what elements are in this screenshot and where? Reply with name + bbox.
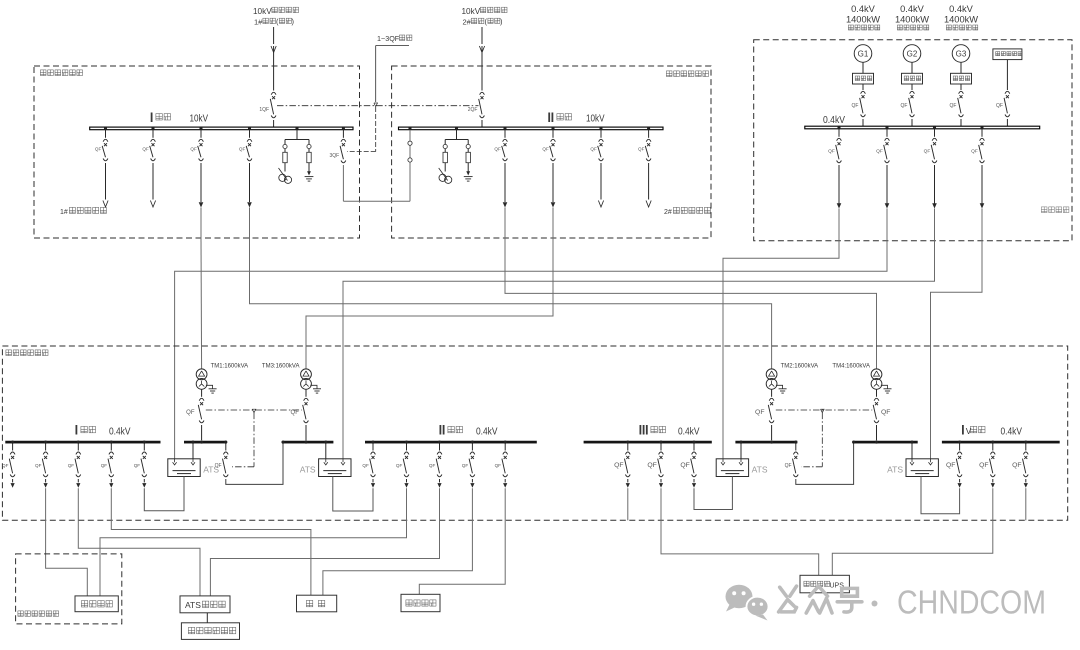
svg-text:1#: 1# <box>254 18 263 27</box>
svg-text:QF: QF <box>971 149 978 155</box>
svg-text:2#: 2# <box>664 209 672 216</box>
svg-text:QF: QF <box>239 147 246 152</box>
svg-text:QF: QF <box>291 410 300 416</box>
svg-text:QF: QF <box>142 147 149 152</box>
svg-text:TM2:1600kVA: TM2:1600kVA <box>781 364 819 370</box>
svg-text:TM3:1600kVA: TM3:1600kVA <box>262 364 300 370</box>
svg-text:G3: G3 <box>956 50 967 59</box>
svg-text:QF: QF <box>190 147 197 152</box>
svg-text:1400kW: 1400kW <box>895 15 929 25</box>
svg-text:TM4:1600kVA: TM4:1600kVA <box>832 364 870 370</box>
svg-text:2#: 2# <box>463 18 472 27</box>
svg-text:QF: QF <box>429 463 436 468</box>
svg-text:QF: QF <box>2 463 9 468</box>
svg-text:QF: QF <box>495 463 502 468</box>
svg-text:QF: QF <box>881 409 890 416</box>
svg-text:QF: QF <box>852 103 859 109</box>
svg-text:V: V <box>966 426 972 436</box>
svg-text:ATS: ATS <box>185 600 201 610</box>
svg-text:10kV: 10kV <box>253 7 272 16</box>
svg-text:QF: QF <box>134 463 141 468</box>
svg-text:QF: QF <box>785 463 792 469</box>
svg-text:QF: QF <box>590 147 597 152</box>
svg-text:QF: QF <box>996 103 1003 109</box>
svg-text:QF: QF <box>755 409 764 416</box>
svg-text:3QF: 3QF <box>329 153 339 159</box>
svg-text:QF: QF <box>396 463 403 468</box>
svg-text:10kV: 10kV <box>190 113 209 125</box>
svg-text:QF: QF <box>362 463 369 468</box>
svg-text:QF: QF <box>647 462 656 469</box>
svg-text:QF: QF <box>494 147 501 152</box>
svg-text:ATS: ATS <box>203 465 219 475</box>
svg-text:QF: QF <box>924 149 931 155</box>
svg-text:1400kW: 1400kW <box>846 15 880 25</box>
svg-text:ATS: ATS <box>752 465 768 475</box>
svg-text:QF: QF <box>1012 462 1021 469</box>
svg-text:QF: QF <box>614 462 623 469</box>
svg-text:QF: QF <box>35 463 42 468</box>
svg-text:QF: QF <box>542 147 549 152</box>
svg-text:1#: 1# <box>60 209 68 216</box>
svg-text:10kV: 10kV <box>462 7 481 16</box>
svg-text:QF: QF <box>876 149 883 155</box>
svg-text:QF: QF <box>979 462 988 469</box>
svg-text:QF: QF <box>462 463 469 468</box>
svg-text:1~3QF: 1~3QF <box>377 34 400 43</box>
svg-text:0.4kV: 0.4kV <box>476 426 498 438</box>
svg-text:0.4kV: 0.4kV <box>851 4 876 14</box>
svg-text:0.4kV: 0.4kV <box>900 4 925 14</box>
svg-text:QF: QF <box>946 462 955 469</box>
svg-text:0.4kV: 0.4kV <box>949 4 974 14</box>
svg-text:QF: QF <box>901 103 908 109</box>
svg-text:CHNDCOM: CHNDCOM <box>897 584 1046 621</box>
svg-text:QF: QF <box>186 410 195 416</box>
svg-text:0.4kV: 0.4kV <box>1001 426 1023 438</box>
svg-text:1QF: 1QF <box>259 107 269 113</box>
svg-text:0.4kV: 0.4kV <box>109 426 131 438</box>
svg-text:QF: QF <box>95 147 102 152</box>
svg-text:QF: QF <box>101 463 108 468</box>
svg-text:QF: QF <box>680 462 689 469</box>
svg-text:10kV: 10kV <box>586 113 605 125</box>
svg-text:2QF: 2QF <box>468 107 478 113</box>
svg-text:1400kW: 1400kW <box>944 15 978 25</box>
svg-text:G2: G2 <box>907 50 918 59</box>
svg-text:QF: QF <box>828 149 835 155</box>
svg-text:ATS: ATS <box>887 465 903 475</box>
svg-text:ATS: ATS <box>300 465 316 475</box>
svg-text:QF: QF <box>950 103 957 109</box>
svg-text:TM1:1600kVA: TM1:1600kVA <box>211 364 249 370</box>
svg-text:QF: QF <box>638 147 645 152</box>
svg-text:QF: QF <box>68 463 75 468</box>
svg-text:0.4kV: 0.4kV <box>823 114 845 126</box>
svg-text:0.4kV: 0.4kV <box>678 426 700 438</box>
svg-text:G1: G1 <box>858 50 869 59</box>
